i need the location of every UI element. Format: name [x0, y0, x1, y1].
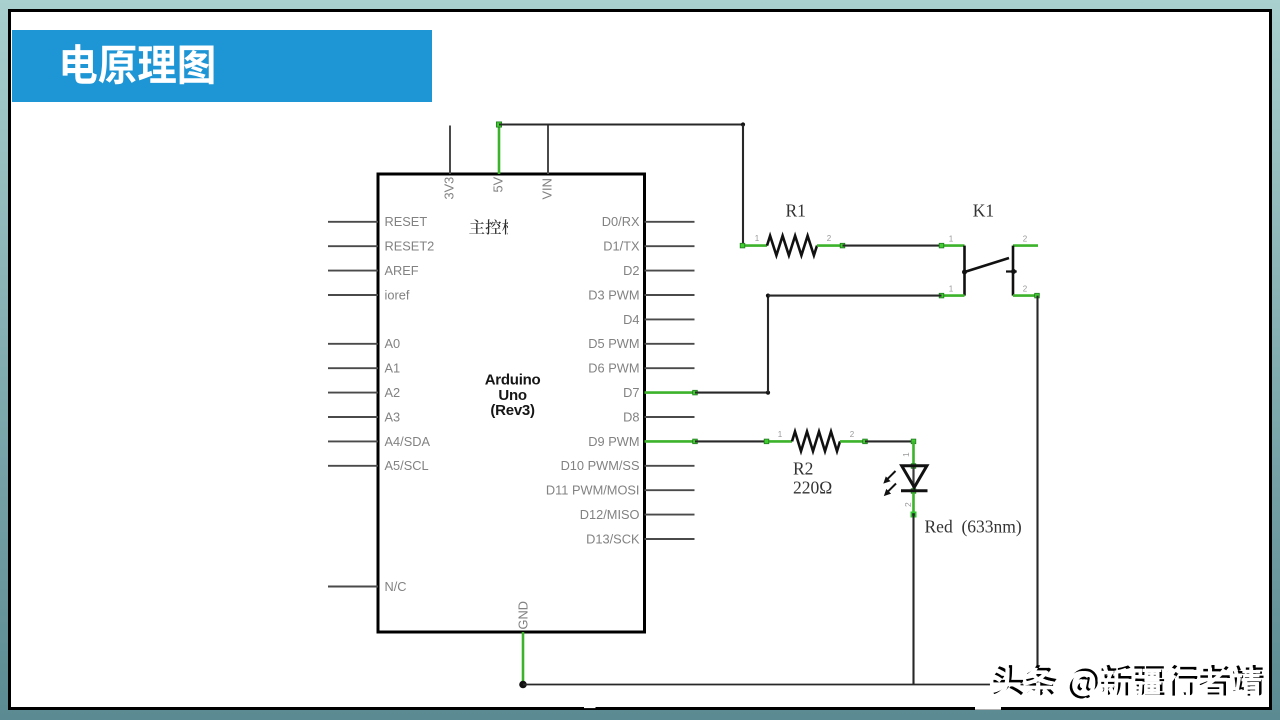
svg-text:D13/SCK: D13/SCK [586, 531, 640, 546]
svg-text:Red (633nm): Red (633nm) [925, 517, 1022, 537]
svg-text:2: 2 [1023, 235, 1028, 244]
svg-text:D4: D4 [623, 312, 639, 327]
svg-text:1: 1 [755, 234, 760, 243]
pin A0 stub [328, 343, 378, 345]
wire D7 vertical up [767, 296, 769, 393]
pin RESET stub [328, 221, 378, 223]
pin D0/RX stub [645, 221, 695, 223]
pin AREF stub [328, 270, 378, 272]
pin A2 stub [328, 392, 378, 394]
junction dot 5V at top wire [496, 122, 501, 127]
pin 3V3 stub [449, 126, 451, 175]
junction dot R2 pin1 [764, 439, 769, 444]
switch K1 right bar [1012, 246, 1015, 296]
junction dot LED cathode [911, 512, 917, 518]
wire R2 to LED corner [865, 440, 914, 442]
svg-text:A5/SCL: A5/SCL [385, 458, 429, 473]
wire 5V vertical down to R1 [742, 125, 744, 246]
title text 电原理图 [63, 44, 214, 84]
svg-text:K1: K1 [973, 200, 994, 220]
pin D5 PWM stub [645, 343, 695, 345]
junction dot GND node [519, 681, 527, 689]
pin ioref stub [328, 294, 378, 296]
resistor R2 zigzag body [792, 432, 840, 452]
svg-text:D8: D8 [623, 409, 639, 424]
switch K1 lever [965, 258, 1010, 272]
junction dot top-right corner [741, 122, 745, 126]
watermark 头条 @新疆行者靖 [993, 665, 1263, 699]
switch K1 pin 1a green lead [942, 244, 965, 247]
wire LED cathode down to GND rail [912, 515, 914, 685]
switch K1 left bar [963, 246, 966, 296]
pin D12/MISO stub [645, 514, 695, 516]
switch K1 contact dot [1011, 269, 1016, 274]
wire 5V top horizontal [499, 123, 743, 125]
switch K1 pin 2a green lead [1013, 244, 1038, 247]
svg-text:A2: A2 [385, 385, 401, 400]
resistor R1 zigzag body [767, 236, 817, 256]
Arduino Uno main IC body U1 [378, 174, 645, 632]
pin A1 stub [328, 367, 378, 369]
pin N/C stub [328, 586, 378, 588]
switch K1 pin 2b green lead [1013, 294, 1038, 297]
wire D9 to R2 [695, 440, 766, 442]
svg-text:2: 2 [827, 234, 832, 243]
svg-text:220Ω: 220Ω [793, 478, 832, 498]
pin VIN stub [547, 125, 549, 175]
pin A3 stub [328, 416, 378, 418]
LED D1 wire through body [912, 466, 914, 491]
pin D4 stub [645, 318, 695, 320]
svg-text:2: 2 [903, 502, 913, 507]
pin 5V green wire [498, 125, 501, 175]
resistor R1 lead 1 green [742, 244, 768, 247]
svg-text:D6 PWM: D6 PWM [588, 361, 639, 376]
svg-text:D5 PWM: D5 PWM [588, 336, 639, 351]
junction dot R2 pin2 [863, 439, 868, 444]
svg-text:(Rev3): (Rev3) [490, 402, 535, 419]
label 主控板 (clipped) inside top of U1 [469, 219, 517, 234]
pin D8 stub [645, 416, 695, 418]
svg-text:A3: A3 [385, 409, 401, 424]
title banner [12, 30, 432, 103]
svg-text:1: 1 [778, 430, 783, 439]
switch K1 contact tick [1006, 270, 1017, 272]
pin D10 PWM/SS stub [645, 465, 695, 467]
switch K1 pivot dot [962, 270, 967, 275]
svg-text:A4/SDA: A4/SDA [385, 434, 431, 449]
pin D9 green wire [645, 440, 696, 443]
junction dot D7 [693, 390, 698, 395]
wire K1 pin2b down to GND rail [1036, 296, 1038, 685]
resistor R1 lead 2 green [817, 244, 843, 247]
pin A5/SCL stub [328, 465, 378, 467]
svg-text:D0/RX: D0/RX [602, 214, 640, 229]
svg-text:RESET2: RESET2 [385, 239, 435, 254]
svg-text:GND: GND [516, 601, 531, 629]
resistor R2 lead 1 green [766, 440, 792, 443]
switch K1 pin 1b green lead [942, 294, 965, 297]
LED D1 wire below body [912, 491, 915, 515]
LED D1 anode green wire [912, 441, 915, 465]
svg-text:D1/TX: D1/TX [603, 239, 640, 254]
junction dot LED corner [911, 439, 916, 444]
svg-text:ioref: ioref [385, 287, 410, 302]
junction dot K1 pin2b [1035, 293, 1040, 298]
pin D1/TX stub [645, 245, 695, 247]
svg-text:RESET: RESET [385, 214, 428, 229]
svg-text:D3 PWM: D3 PWM [588, 287, 639, 302]
LED D1 cathode bar [901, 489, 928, 492]
LED D1 light arrow 1 [883, 471, 895, 484]
pin D3 PWM stub [645, 294, 695, 296]
pin D7 green wire [645, 391, 696, 394]
pin D6 PWM stub [645, 367, 695, 369]
svg-text:AREF: AREF [385, 263, 419, 278]
svg-text:D2: D2 [623, 263, 639, 278]
svg-text:R2: R2 [793, 459, 813, 479]
svg-text:D11 PWM/MOSI: D11 PWM/MOSI [546, 483, 640, 498]
svg-text:2: 2 [1023, 285, 1028, 294]
LED D1 triangle [902, 466, 927, 488]
junction dot R1 pin1 [740, 243, 745, 248]
wire GND horizontal rail [523, 684, 1038, 686]
junction dot K1 pin1b [939, 293, 944, 298]
pin D11 PWM/MOSI stub [645, 489, 695, 491]
junction dot K1 pin1a [939, 243, 944, 248]
svg-text:VIN: VIN [540, 178, 555, 199]
junction dot R1 pin2 [840, 243, 845, 248]
svg-text:1: 1 [949, 235, 954, 244]
svg-text:3V3: 3V3 [442, 177, 457, 200]
wire R1 to K1 [843, 245, 942, 247]
wire D7 horizontal [695, 392, 768, 394]
resistor R2 lead 2 green [840, 440, 865, 443]
junction dot K1 corner [766, 294, 770, 298]
LED D1 light arrow 2 [884, 484, 896, 497]
pin RESET2 stub [328, 245, 378, 247]
junction dot LED anode at triangle [911, 464, 916, 469]
svg-text:1: 1 [949, 285, 954, 294]
svg-text:R1: R1 [786, 200, 806, 220]
junction dot D7 corner [766, 391, 770, 395]
svg-text:D12/MISO: D12/MISO [580, 507, 640, 522]
svg-text:D7: D7 [623, 385, 639, 400]
svg-text:A0: A0 [385, 336, 401, 351]
svg-text:N/C: N/C [385, 579, 407, 594]
pin GND green wire [522, 632, 525, 685]
wire K1 pin1b horizontal [768, 295, 942, 297]
svg-text:1: 1 [901, 452, 911, 457]
svg-text:D9 PWM: D9 PWM [588, 434, 639, 449]
svg-text:A1: A1 [385, 361, 401, 376]
pin D13/SCK stub [645, 538, 695, 540]
svg-text:5V: 5V [491, 176, 506, 192]
junction dot LED cathode bar [911, 489, 916, 494]
pin A4/SDA stub [328, 440, 378, 442]
pin D2 stub [645, 270, 695, 272]
svg-text:2: 2 [850, 430, 855, 439]
svg-text:D10 PWM/SS: D10 PWM/SS [561, 458, 640, 473]
junction dot D9 [693, 439, 698, 444]
